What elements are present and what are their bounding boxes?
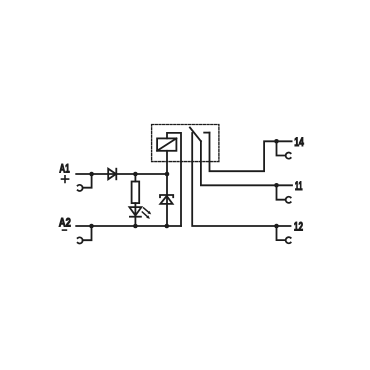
wire resistor to LED (134, 203, 136, 226)
relay coil K1 (157, 138, 176, 150)
fixed contact NC post (191, 133, 193, 162)
relay enclosure (dashed) (152, 125, 219, 162)
diode D1 (series, A1 input) (108, 169, 116, 180)
clamp contact A2 (78, 237, 83, 243)
polarity mark - (A2) (62, 229, 67, 231)
clamp contact A1 (78, 185, 83, 191)
wire 14 clamp drop (277, 141, 286, 155)
LED D3 cathode bar (130, 216, 141, 218)
contact blade (common) (190, 128, 201, 142)
wire node B to diode D2 (166, 174, 168, 226)
junction A2/clamp (89, 224, 94, 229)
wire A2 clamp drop (83, 226, 92, 240)
wire coil bottom to node B (166, 151, 168, 174)
svg-text:A1: A1 (59, 161, 70, 175)
wire A1 clamp drop (83, 174, 92, 188)
wire NO contact to terminal 14 (210, 133, 292, 172)
wire A2 row (76, 225, 181, 227)
wire 12 clamp drop (277, 226, 286, 240)
LED light arrow 2 (142, 212, 148, 217)
clamp contact 14 (286, 153, 291, 159)
LED D3 triangle (129, 207, 141, 215)
wire NC contact to terminal 12 (192, 162, 290, 226)
fixed contact NO hook (204, 132, 209, 134)
wire resistor branch (134, 174, 136, 182)
resistor R1 (132, 182, 140, 204)
junction D2/A2 (165, 224, 170, 229)
svg-text:14: 14 (294, 135, 304, 149)
junction 11/clamp (274, 183, 279, 188)
svg-text:12: 12 (294, 219, 303, 233)
wire coil top return to A2 (167, 133, 181, 226)
wire A1 row (76, 173, 167, 175)
LED light arrow 1 (144, 208, 150, 213)
junction LED/A2 (133, 224, 138, 229)
diode D2 cathode bar with ticks (160, 195, 173, 197)
clamp contact 11 (286, 197, 291, 203)
wire common pole to terminal 11 (201, 141, 292, 185)
polarity mark + (A1) (61, 175, 70, 183)
wire 11 clamp drop (277, 185, 286, 199)
clamp contact 12 (286, 237, 291, 243)
junction node B / resistor branch (133, 172, 138, 177)
svg-text:11: 11 (295, 179, 303, 193)
junction node B / coil-diode (165, 172, 170, 177)
diode D2 triangle (160, 196, 172, 204)
junction A1/clamp (89, 172, 94, 177)
junction 12/clamp (274, 224, 279, 229)
svg-text:A2: A2 (59, 216, 71, 230)
junction 14/clamp (274, 139, 279, 144)
